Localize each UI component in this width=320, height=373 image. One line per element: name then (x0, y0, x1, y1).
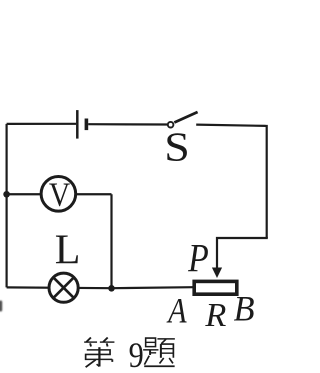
battery cell: long positive plate (76, 110, 79, 139)
svg-text:R: R (204, 296, 226, 334)
caption character 题 (hand-drawn) (143, 338, 175, 366)
wire right corner to slider arrow (217, 238, 268, 269)
junction node left (voltmeter tap) (3, 191, 10, 198)
rheostat R body (194, 281, 237, 294)
svg-text:S: S (164, 125, 190, 170)
slider arrowhead onto rheostat (212, 268, 222, 279)
battery cell: short thick negative plate (85, 119, 89, 131)
wire battery to switch (88, 123, 167, 126)
wire bottom horizontal (lamp row to rheostat) (7, 287, 193, 288)
wire left vertical side (5, 124, 7, 288)
voltmeter V1 circle (41, 177, 76, 212)
svg-text:P: P (187, 237, 209, 281)
switch S pivot contact (168, 122, 174, 128)
svg-text:L: L (55, 228, 81, 274)
switch S blade (open) (174, 112, 197, 123)
junction node right (lamp row) (108, 285, 115, 292)
scan smudge left edge (0, 301, 2, 312)
caption character 第 (hand-drawn) (84, 338, 114, 368)
lamp cross stroke 2 (53, 277, 75, 299)
svg-text:A: A (166, 291, 187, 331)
wire voltmeter branch horizontal (7, 193, 112, 195)
svg-text:V: V (49, 176, 70, 213)
wire voltmeter branch vertical (110, 194, 112, 288)
svg-text:B: B (234, 289, 255, 329)
wire switch to top-right corner and down right side (196, 125, 267, 238)
svg-text:9: 9 (129, 335, 144, 373)
lamp L circle (49, 273, 78, 302)
lamp cross stroke 1 (53, 277, 75, 299)
wire top-left horizontal (node to battery) (7, 123, 77, 125)
